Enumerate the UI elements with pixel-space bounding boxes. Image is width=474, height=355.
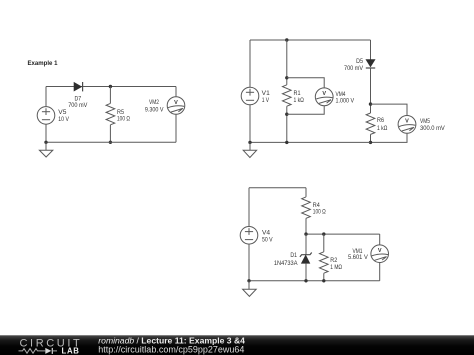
wire top net circuit2 bbox=[250, 39, 371, 41]
wire VM2 bottom bbox=[175, 114, 177, 142]
svg-text:VM5: VM5 bbox=[420, 118, 430, 125]
wire V1 bottom bbox=[249, 105, 251, 143]
wire D5 top stub bbox=[370, 40, 372, 60]
svg-text:VM2: VM2 bbox=[149, 99, 159, 106]
wire V1 top bbox=[249, 40, 251, 87]
node ground junction circuit2 bbox=[248, 141, 251, 144]
svg-text:1 MΩ: 1 MΩ bbox=[330, 264, 342, 271]
svg-text:100 Ω: 100 Ω bbox=[313, 209, 326, 216]
svg-text:R1: R1 bbox=[294, 90, 301, 97]
svg-text:1.000 V: 1.000 V bbox=[336, 97, 355, 104]
voltmeter VM1 bbox=[371, 245, 389, 263]
zener diode D1 bbox=[300, 253, 312, 264]
svg-text:R6: R6 bbox=[377, 117, 384, 124]
wire R5 bottom stub bbox=[109, 125, 111, 143]
footer bar bbox=[0, 335, 474, 355]
node VM4 bottom tap bbox=[285, 113, 288, 116]
node VM4 top tap bbox=[285, 76, 288, 79]
wire top net circuit1 bbox=[46, 86, 176, 88]
wire R2 bottom stub bbox=[323, 273, 325, 281]
wire VM4 bottom bbox=[287, 106, 324, 115]
svg-text:700 mV: 700 mV bbox=[68, 102, 88, 109]
resistor R5 bbox=[106, 103, 115, 124]
wire R1 top stub bbox=[286, 40, 288, 85]
wire D5 bottom stub bbox=[370, 68, 372, 113]
svg-text:9.300 V: 9.300 V bbox=[145, 107, 164, 114]
wire top net circuit3 bbox=[249, 187, 306, 189]
resistor R2 bbox=[320, 252, 329, 273]
node R6 bottom junction bbox=[369, 141, 372, 144]
wire R1 bottom stub bbox=[286, 106, 288, 142]
wire VM1 bottom bbox=[379, 263, 381, 281]
voltage source V5 bbox=[37, 107, 55, 125]
svg-text:100 Ω: 100 Ω bbox=[117, 116, 130, 123]
svg-text:V: V bbox=[378, 248, 382, 254]
wire bottom net circuit1 bbox=[46, 141, 176, 143]
wire VM5 bottom bbox=[371, 133, 408, 142]
svg-text:10 V: 10 V bbox=[58, 116, 69, 123]
svg-text:700 mV: 700 mV bbox=[344, 65, 364, 72]
svg-text:V1: V1 bbox=[262, 90, 271, 97]
diode D5 bbox=[366, 60, 375, 69]
node D1 top junction bbox=[304, 232, 307, 235]
wire R5 top stub bbox=[109, 87, 111, 104]
wire R2 top stub bbox=[323, 234, 325, 252]
svg-text:1N4733A: 1N4733A bbox=[274, 260, 298, 267]
node R5 bottom junction bbox=[109, 141, 112, 144]
wire VM2 top bbox=[175, 87, 177, 97]
node ground junction circuit1 bbox=[44, 141, 47, 144]
node R1 bottom junction bbox=[285, 141, 288, 144]
svg-text:V: V bbox=[405, 119, 409, 125]
wire bottom net circuit2 bbox=[250, 141, 371, 143]
wire D1 bottom stub bbox=[305, 263, 307, 281]
wire V4 top bbox=[248, 188, 250, 227]
svg-text:50 V: 50 V bbox=[262, 236, 273, 243]
logo resistor symbol bbox=[19, 349, 42, 354]
node VM5 top tap bbox=[369, 102, 372, 105]
svg-text:5.601 V: 5.601 V bbox=[348, 254, 369, 261]
voltmeter VM5 bbox=[398, 116, 416, 134]
wire left branch V5 top bbox=[45, 87, 47, 107]
voltage source V4 bbox=[240, 227, 258, 245]
ground circuit3 bbox=[243, 281, 257, 297]
wire mid net circuit3 bbox=[306, 233, 380, 235]
svg-text:D1: D1 bbox=[290, 252, 297, 259]
wire V5 bottom bbox=[45, 124, 47, 142]
resistor R6 bbox=[366, 113, 375, 134]
wire VM4 top bbox=[287, 78, 324, 88]
wire R4 bottom stub bbox=[305, 218, 307, 234]
voltmeter VM4 bbox=[315, 88, 333, 106]
wire R6 bottom stub bbox=[370, 134, 372, 142]
svg-text:1 kΩ: 1 kΩ bbox=[377, 125, 388, 132]
wire VM5 top bbox=[371, 104, 408, 115]
logo diode symbol bbox=[42, 348, 58, 354]
ground circuit2 bbox=[243, 142, 256, 157]
wire R4 top stub bbox=[305, 188, 307, 197]
svg-text:V: V bbox=[322, 91, 326, 97]
node D1 bottom junction bbox=[304, 279, 307, 282]
node R5 top junction bbox=[109, 85, 112, 88]
voltage source V1 bbox=[241, 87, 259, 105]
svg-text:300.0 mV: 300.0 mV bbox=[420, 125, 446, 132]
svg-text:1 V: 1 V bbox=[262, 97, 270, 104]
wire bottom net circuit3 bbox=[249, 280, 380, 282]
wire V4 bottom bbox=[248, 244, 250, 281]
svg-text:V: V bbox=[174, 100, 178, 106]
node ground junction circuit3 bbox=[247, 279, 250, 282]
svg-text:1 kΩ: 1 kΩ bbox=[294, 97, 305, 104]
node R2 bottom junction bbox=[322, 279, 325, 282]
resistor R4 bbox=[302, 197, 311, 218]
node top junction R1 branch bbox=[285, 38, 288, 41]
svg-text:Example 1: Example 1 bbox=[28, 60, 58, 67]
wire VM1 top bbox=[379, 234, 381, 245]
ground circuit1 bbox=[39, 142, 52, 157]
svg-text:http://circuitlab.com/cp59pp27: http://circuitlab.com/cp59pp27ewu64 bbox=[98, 344, 244, 354]
node R2 top junction bbox=[322, 232, 325, 235]
diode D7 bbox=[74, 82, 83, 91]
voltmeter VM2 bbox=[167, 97, 185, 115]
wire D1 top stub bbox=[305, 234, 307, 255]
resistor R1 bbox=[283, 85, 292, 106]
svg-text:LAB: LAB bbox=[62, 347, 80, 355]
